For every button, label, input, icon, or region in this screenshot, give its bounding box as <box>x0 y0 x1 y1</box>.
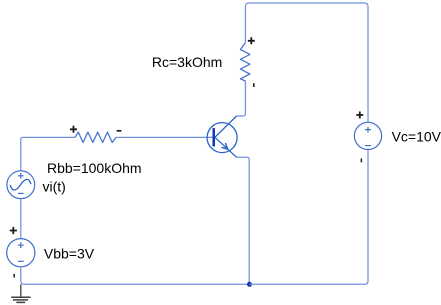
ground bar 1 <box>11 296 30 298</box>
ground bar 2 <box>13 299 28 301</box>
svg-text:Rbb=100kOhm: Rbb=100kOhm <box>47 160 142 176</box>
transistor Q1 emitter stroke <box>215 137 237 157</box>
polarity tick below Vbb <box>13 274 15 278</box>
polarity plus above Rc <box>248 37 255 44</box>
ac source plus mark <box>18 173 24 179</box>
wire: Vbb bottom, corner, bottom rail to junction <box>21 267 250 285</box>
polarity plus above Vbb <box>10 227 17 234</box>
transistor Q1 circle <box>207 123 237 153</box>
transistor Q1 base bar <box>213 128 216 146</box>
wire: bottom rail junction to Vc branch <box>250 150 369 285</box>
polarity plus left of Rbb <box>70 126 77 133</box>
ac source sine wave <box>10 179 31 190</box>
polarity tick below Rc <box>253 83 255 87</box>
wire: top rail from Rc top to Vc branch <box>245 3 368 122</box>
wire: Rc bottom to collector bend <box>237 81 246 116</box>
svg-text:Vbb=3V: Vbb=3V <box>44 245 95 261</box>
ac source vi(t) circle <box>7 171 35 199</box>
wire: Rbb right lead to transistor base <box>116 136 213 138</box>
wire: left vertical and base lead to Rbb <box>21 137 75 170</box>
Vc plus mark <box>365 127 371 133</box>
transistor Q1 emitter arrow <box>221 143 227 149</box>
Vbb minus mark <box>18 260 24 262</box>
wire: emitter bend down to bottom rail <box>237 157 250 284</box>
polarity plus above Vc <box>356 112 363 119</box>
svg-text:Rc=3kOhm: Rc=3kOhm <box>152 54 222 70</box>
resistor Rbb (horizontal zigzag) <box>75 132 116 142</box>
junction dot at emitter/bottom rail <box>247 282 252 287</box>
wire: between ac source and Vbb <box>20 199 22 239</box>
dc source Vc circle <box>354 122 381 149</box>
svg-text:vi(t): vi(t) <box>43 179 66 195</box>
polarity minus right of Rbb <box>117 130 122 132</box>
ground stem <box>20 284 22 297</box>
resistor Rc (vertical zigzag) <box>240 43 250 81</box>
ac source minus mark <box>18 192 24 194</box>
transistor Q1 collector stroke <box>215 116 237 137</box>
polarity tick below Vc <box>360 159 362 163</box>
svg-text:Vc=10V: Vc=10V <box>392 128 441 144</box>
Vc minus mark <box>365 145 371 147</box>
ground bar 3 <box>16 301 25 303</box>
dc source Vbb circle <box>7 239 35 267</box>
Vbb plus mark <box>18 242 24 248</box>
